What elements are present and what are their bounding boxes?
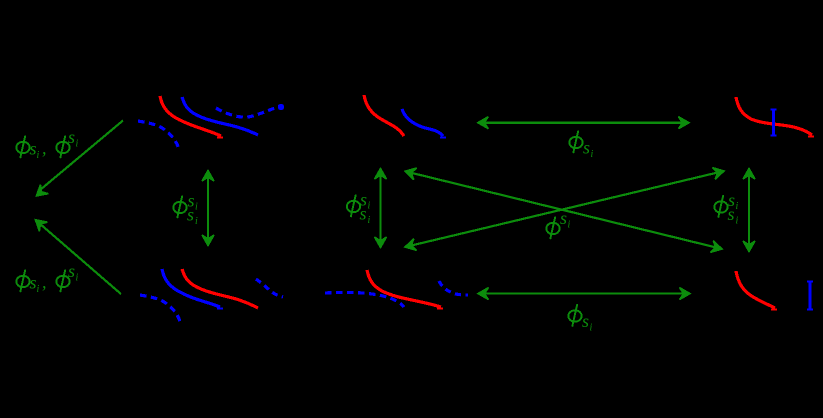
label: phi_{s_i} (top horizontal arrow) [569, 131, 593, 161]
bottom-middle group: red curve end tick [437, 308, 443, 310]
label: phi_{s_i}, phi^{s_i} (upper left) [16, 127, 78, 161]
bottom-right group: red curve end tick [771, 309, 777, 311]
top-left group: dashed arc end blob [278, 104, 284, 110]
top-middle group: red solid curve [364, 95, 404, 136]
svg-text:i: i [736, 216, 739, 227]
svg-text:s: s [30, 273, 37, 293]
bottom-left group: blue solid curve [162, 269, 220, 307]
top-middle group: blue solid curve [402, 109, 443, 136]
svg-text:s: s [582, 311, 589, 331]
bottom-left group: blue curve end tick [217, 308, 223, 310]
svg-text:i: i [37, 284, 40, 295]
arrow: diagonal from top-left group down-left [32, 121, 123, 201]
double arrow: vertical right [743, 169, 755, 252]
top-right group: blue vertical tick with caps [771, 110, 777, 136]
svg-text:i: i [37, 150, 40, 161]
double arrow: X cross arm lower-left to upper-right [404, 165, 726, 253]
top-left group: blue dashed upper-right wavy arc [216, 106, 281, 117]
bottom-right group: blue vertical bar with caps [807, 282, 813, 310]
svg-text:,: , [42, 272, 47, 292]
svg-text:s: s [68, 127, 75, 147]
svg-text:s: s [728, 204, 735, 224]
svg-text:s: s [30, 139, 37, 159]
svg-text:i: i [736, 201, 739, 212]
label: phi with super and sub s_i (right vertical arrow) [714, 190, 738, 227]
svg-text:i: i [568, 220, 571, 231]
svg-text:s: s [360, 204, 367, 224]
svg-text:s: s [68, 261, 75, 281]
double arrow: X cross arm upper-left to lower-right [404, 165, 724, 254]
svg-text:s: s [187, 205, 194, 225]
bottom-left group: blue dashed lower-left arc [140, 295, 180, 322]
svg-text:,: , [42, 138, 47, 158]
double arrow: vertical middle [375, 169, 387, 248]
label: phi^{s_i} (X cross center) [546, 208, 570, 239]
svg-text:i: i [590, 323, 593, 334]
svg-text:i: i [591, 149, 594, 160]
svg-text:i: i [368, 201, 371, 212]
double arrow: horizontal bottom [478, 288, 690, 300]
label: phi_{s_i}, phi^{s_i} (lower left) [16, 261, 78, 295]
arrow: diagonal from bottom-left group up-left [31, 215, 121, 294]
label: phi with super and sub s_i (left vertical arrow) [173, 191, 198, 228]
top-right group: red solid curve [736, 97, 812, 135]
top-left group: red solid curve [160, 96, 221, 136]
double arrow: horizontal top [478, 117, 689, 129]
label: phi with super and sub s_i (middle vertical arrow) [347, 190, 371, 227]
bottom-left group: blue dashed upper-right arc [256, 279, 283, 297]
svg-text:i: i [195, 202, 198, 213]
top-left group: blue solid curve [182, 97, 258, 135]
bottom-middle group: blue dashed small arc [439, 281, 468, 295]
double arrow: vertical left [202, 171, 214, 246]
bottom-left group: red solid curve [182, 269, 258, 308]
svg-text:i: i [368, 215, 371, 226]
top-middle group: blue curve end tick [440, 137, 446, 139]
svg-text:i: i [76, 139, 79, 150]
svg-text:s: s [583, 138, 590, 158]
label: phi_{s_i} (bottom horizontal arrow) [568, 304, 592, 334]
svg-text:i: i [195, 216, 198, 227]
bottom-middle group: blue dashed long curve [325, 292, 404, 307]
bottom-middle group: red solid curve [367, 270, 441, 307]
top-left group: blue dashed lower-left arc [138, 121, 179, 149]
bottom-right group: red solid curve [736, 271, 775, 308]
top-left group: red curve end tick [217, 137, 223, 139]
svg-text:i: i [76, 273, 79, 284]
svg-text:s: s [560, 208, 567, 228]
top-right group: red curve end tick [808, 136, 814, 138]
